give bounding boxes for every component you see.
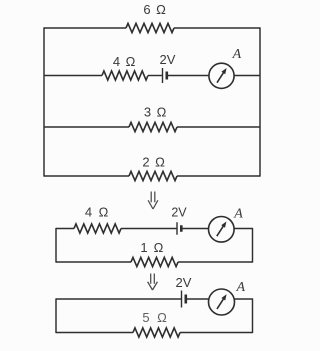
svg-text:4: 4 [113,54,120,69]
svg-text:Ω: Ω [154,240,164,255]
svg-text:Ω: Ω [156,2,166,17]
svg-text:2: 2 [142,155,149,170]
svg-text:2V: 2V [176,275,192,290]
svg-text:A: A [233,207,243,222]
svg-text:Ω: Ω [126,54,136,69]
svg-text:Ω: Ω [99,205,109,220]
svg-text:A: A [236,280,246,295]
svg-text:Ω: Ω [155,155,165,170]
svg-text:1: 1 [140,240,147,255]
svg-text:2V: 2V [160,52,176,67]
svg-text:Ω: Ω [157,310,167,325]
svg-text:6: 6 [143,2,150,17]
svg-text:Ω: Ω [157,105,167,120]
svg-text:3: 3 [144,105,151,120]
svg-text:4: 4 [85,205,92,220]
svg-text:A: A [232,47,242,62]
svg-text:5: 5 [142,310,149,325]
svg-text:2V: 2V [171,206,187,220]
